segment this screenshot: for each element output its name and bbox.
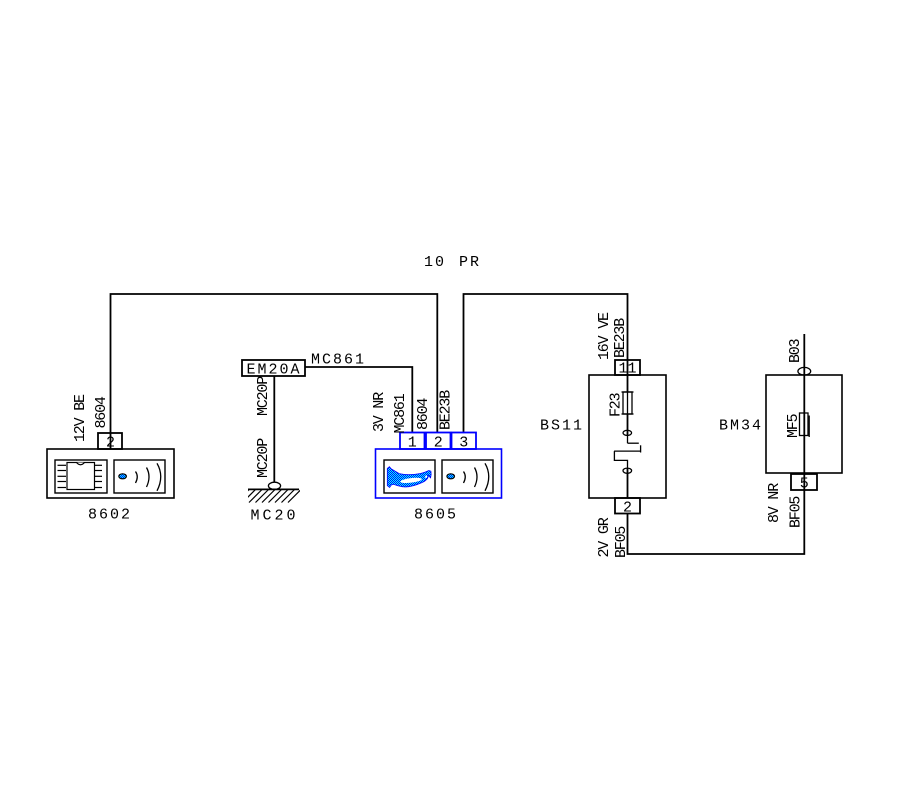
box BS11 <box>589 375 666 498</box>
svg-text:8605: 8605 <box>414 507 458 524</box>
label MC861 <box>311 352 366 369</box>
IC symbol sub-box <box>55 460 107 493</box>
box 8602 <box>47 449 174 498</box>
switch (push-button) <box>614 430 641 473</box>
svg-text:10: 10 <box>424 254 446 271</box>
wire pin11 to fuse <box>627 360 629 392</box>
svg-text:MF5: MF5 <box>785 413 802 438</box>
label MC20P upper <box>255 376 272 416</box>
svg-text:2: 2 <box>434 435 443 452</box>
connector pin 11 of BS11 <box>615 360 640 375</box>
label 10 PR <box>424 254 481 271</box>
label 8602 <box>88 507 132 524</box>
connector pin 5 of BM34 <box>791 474 817 490</box>
svg-text:BE23B: BE23B <box>438 390 455 430</box>
fuse MF5 <box>800 413 810 437</box>
label BE23B pin3 <box>438 390 455 430</box>
connector B03 eyelet <box>798 367 811 375</box>
wire switch to pin2 <box>627 468 629 498</box>
wire net BF05: BS11 pin2 to BM34 pin5 <box>628 490 805 554</box>
component 8605 (blue) <box>376 433 502 499</box>
connector pin 2 of 8602 <box>98 433 122 449</box>
label 8V NR <box>766 483 783 523</box>
label MC20P lower <box>255 438 272 478</box>
connector pin 3 of 8605 <box>452 433 477 450</box>
label BE23B <box>612 318 629 358</box>
svg-text:MC20P: MC20P <box>255 438 272 478</box>
label 16V VE <box>596 312 613 360</box>
wire fuse to switch <box>627 414 629 436</box>
svg-text:3: 3 <box>459 435 468 452</box>
wire net BE 8604: 8602 pin2 up and across to 8605 pin2 <box>111 294 438 433</box>
label 3V NR <box>371 392 388 432</box>
svg-text:F23: F23 <box>608 392 625 417</box>
svg-text:BF05: BF05 <box>788 496 805 528</box>
svg-text:BS11: BS11 <box>540 418 584 435</box>
component BS11 <box>589 312 666 517</box>
wire net BE23B: 8605 pin3 up, across to BS11 pin11 <box>464 294 628 433</box>
label 8604 <box>93 396 110 428</box>
horn symbol sub-box <box>384 460 435 493</box>
svg-text:12V BE: 12V BE <box>72 394 89 442</box>
svg-text:2V GR: 2V GR <box>596 517 613 557</box>
speaker symbol sub-box <box>442 460 493 493</box>
component BM34 <box>766 334 842 493</box>
wire MC20P: EM20A down to ground <box>273 376 275 482</box>
connector pin 2 of BS11 <box>615 498 640 514</box>
svg-text:BE23B: BE23B <box>612 318 629 358</box>
box 8605 <box>376 449 502 498</box>
label 8605 <box>414 507 458 524</box>
label BF05 BM34 <box>788 496 805 528</box>
box BM34 <box>766 375 842 473</box>
label BM34 <box>719 418 763 435</box>
svg-text:5: 5 <box>800 476 809 493</box>
splice EM20A box <box>242 360 305 376</box>
svg-text:8604: 8604 <box>93 396 110 428</box>
connector pin 1 of 8605 <box>400 433 425 450</box>
svg-text:EM20A: EM20A <box>247 362 302 379</box>
label 2V GR <box>596 517 613 557</box>
label MF5 <box>785 413 802 438</box>
svg-text:MC861: MC861 <box>392 393 409 433</box>
svg-text:MC20P: MC20P <box>255 376 272 416</box>
svg-text:8602: 8602 <box>88 507 132 524</box>
label F23 <box>608 392 625 417</box>
svg-text:1: 1 <box>408 435 417 452</box>
svg-text:MC20: MC20 <box>251 508 299 525</box>
label B03 <box>787 338 804 363</box>
svg-text:MC861: MC861 <box>311 352 366 369</box>
label BS11 <box>540 418 584 435</box>
svg-text:8V NR: 8V NR <box>766 483 783 523</box>
label MC20 <box>251 508 299 525</box>
svg-text:PR: PR <box>459 254 481 271</box>
ground MC20 <box>236 482 301 502</box>
label 12V BE <box>72 394 89 442</box>
connector pin 2 of 8605 <box>426 433 451 450</box>
label MC861 pin1 <box>392 393 409 433</box>
fuse F23 <box>622 392 634 414</box>
svg-text:3V NR: 3V NR <box>371 392 388 432</box>
horn shape <box>387 467 431 488</box>
wire through BM34 <box>803 375 805 490</box>
wire B03 stub <box>803 334 805 375</box>
label BF05 BS11 <box>613 526 630 558</box>
svg-text:BM34: BM34 <box>719 418 763 435</box>
svg-text:B03: B03 <box>787 338 804 363</box>
label 8604 pin2 <box>415 398 432 430</box>
component 8602 <box>47 394 174 498</box>
svg-text:16V VE: 16V VE <box>596 312 613 360</box>
wire MC861: EM20A to 8605 pin1 <box>305 367 412 433</box>
svg-text:8604: 8604 <box>415 398 432 430</box>
speaker symbol sub-box <box>114 460 165 493</box>
